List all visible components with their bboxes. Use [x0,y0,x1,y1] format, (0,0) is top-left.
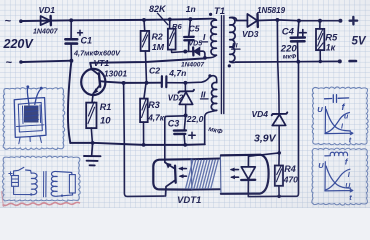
node C1 bottom / AC return junction [69,59,73,63]
wire bottom ground rail [70,143,205,145]
node VD4/R4/LED junction [277,151,281,155]
resistor R2 [142,18,146,22]
node R6/C5/VD5 junction [183,50,187,54]
node base R2/R3 junction [145,81,149,85]
node R3 rail junction [142,143,146,147]
wire R6 bottom to VD5 node [171,50,185,53]
winding I primary [212,19,217,21]
transformer core [220,16,222,114]
node phase dot winding II [208,74,211,77]
wire lower AC terminal to C1 junction [23,61,72,62]
resistor R5 [318,19,322,23]
zener VD2 [184,83,186,91]
resistor R3 [144,83,146,99]
sketch cloud capacitor frequency graph [312,87,368,145]
node C1 top junction [69,18,73,22]
capacitor C1 [70,20,72,38]
wire +5V rail [258,19,340,22]
capacitor C4 [297,19,301,23]
wire left rail down to ground rail [68,61,71,143]
wire -5V rail [236,60,340,63]
wire junction to optocoupler collector [165,116,186,160]
light arrows from LED [231,169,238,171]
wire top AC line to transformer [23,19,212,21]
node base-optocoupler junction [122,81,126,85]
capacitor C2 [161,76,163,87]
diode VD3 [237,20,248,22]
capacitor C3 [184,115,185,129]
node VD2/C3/opto junction [184,113,188,117]
transistor VT1 [81,69,105,95]
node AC input top terminal [19,19,23,23]
wire R4 bottom / LED cathode to feedback return [278,186,280,197]
node VD2 top junction [183,81,187,85]
wire R1 to ground junction [91,128,92,143]
winding III secondary [230,17,237,20]
node phase dot primary [209,13,212,16]
LED in VDT1 [247,156,249,166]
winding II feedback [185,76,216,83]
optocoupler VDT1 body left half [153,159,191,189]
node phase dot secondary [228,64,231,67]
wire R3 bottom to rail [143,122,145,145]
node output plus terminal [338,19,342,23]
node output minus terminal [338,59,342,63]
sketch cloud inductor frequency graph [312,148,369,205]
resistor R1 [86,103,96,129]
sketch cloud transformer demo circuit [2,156,80,201]
red checkmark wavy line [3,202,81,205]
node AC input bottom terminal [19,60,23,64]
phototransistor in VDT1 [165,160,175,169]
light arrows onto phototransistor [180,168,187,170]
wire base node down-left to opto emitter [124,83,165,196]
wire R5 bottom to -5V rail [319,50,321,61]
diode VD5 [185,50,193,52]
resistor R6 [168,17,172,21]
diode VD1 [41,16,51,25]
capacitor C5 [188,17,192,21]
optocoupler hatched gap [191,158,220,161]
wire junction to LED anode [249,153,280,156]
zener VD4 [272,112,288,115]
wire VT1 emitter to R1 [92,94,93,102]
node VD4 branch junction [275,18,279,22]
node collector/primary/VD5 junction [203,56,207,60]
wire VT1 collector up and right to transformer primary [90,58,205,69]
resistor R4 [278,153,280,166]
optocoupler body right half [221,155,269,194]
node C4/feedback junction [296,60,300,64]
ground [91,143,94,155]
wire VT1 base line [105,82,162,83]
node C3 rail junction [183,143,187,147]
sketch cloud transformer bobbin [3,88,65,150]
node ground junction [91,141,95,145]
wire R2 bottom to base node [145,51,146,83]
wire VD4 branch from +5V rail [277,20,279,114]
